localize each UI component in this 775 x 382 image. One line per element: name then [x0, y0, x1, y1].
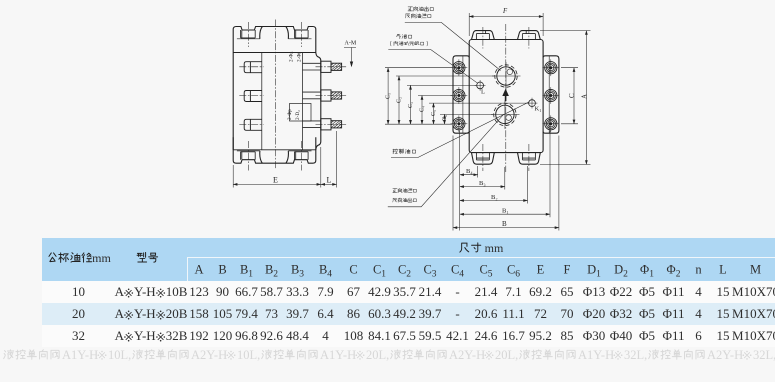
svg-text:A: A: [581, 94, 589, 99]
svg-text:32L,: 32L,: [624, 348, 647, 362]
svg-text:10L,: 10L,: [237, 348, 260, 362]
svg-text:A1Y-H: A1Y-H: [578, 348, 614, 362]
svg-text:L: L: [327, 176, 332, 185]
svg-text:10L,: 10L,: [108, 348, 131, 362]
svg-text:A2Y-H: A2Y-H: [707, 348, 743, 362]
svg-text:C₃: C₃: [408, 102, 414, 108]
svg-text:L: L: [481, 89, 485, 96]
svg-text:20L,: 20L,: [366, 348, 389, 362]
svg-text:20L,: 20L,: [495, 348, 518, 362]
svg-text:A1Y-H: A1Y-H: [62, 348, 98, 362]
svg-text:2-Φz: 2-Φz: [289, 51, 295, 62]
svg-text:A1Y-H: A1Y-H: [320, 348, 356, 362]
svg-text:A2Y-H: A2Y-H: [191, 348, 227, 362]
svg-text:B₄: B₄: [466, 168, 473, 175]
svg-text:C: C: [568, 93, 576, 98]
svg-text:B: B: [502, 220, 507, 228]
svg-text:C₆: C₆: [442, 115, 448, 121]
svg-text:C₂: C₂: [397, 97, 403, 103]
svg-text:F: F: [502, 8, 508, 15]
svg-text:2-Φp: 2-Φp: [287, 109, 293, 120]
svg-text:C₄: C₄: [420, 106, 426, 112]
svg-text:32L,: 32L,: [753, 348, 775, 362]
svg-text:C₅: C₅: [431, 110, 437, 116]
svg-text:B₁: B₁: [502, 208, 509, 215]
svg-text:2-D₂: 2-D₂: [295, 110, 301, 120]
svg-text:E: E: [273, 176, 278, 185]
svg-text:2-Φt: 2-Φt: [297, 52, 303, 62]
svg-text:C₁: C₁: [386, 93, 392, 99]
svg-text:A2Y-H: A2Y-H: [449, 348, 485, 362]
svg-text:B₂: B₂: [491, 194, 498, 201]
svg-text:K₁: K₁: [535, 106, 542, 113]
svg-text:B₃: B₃: [479, 180, 486, 187]
svg-text:A-M: A-M: [345, 41, 357, 47]
